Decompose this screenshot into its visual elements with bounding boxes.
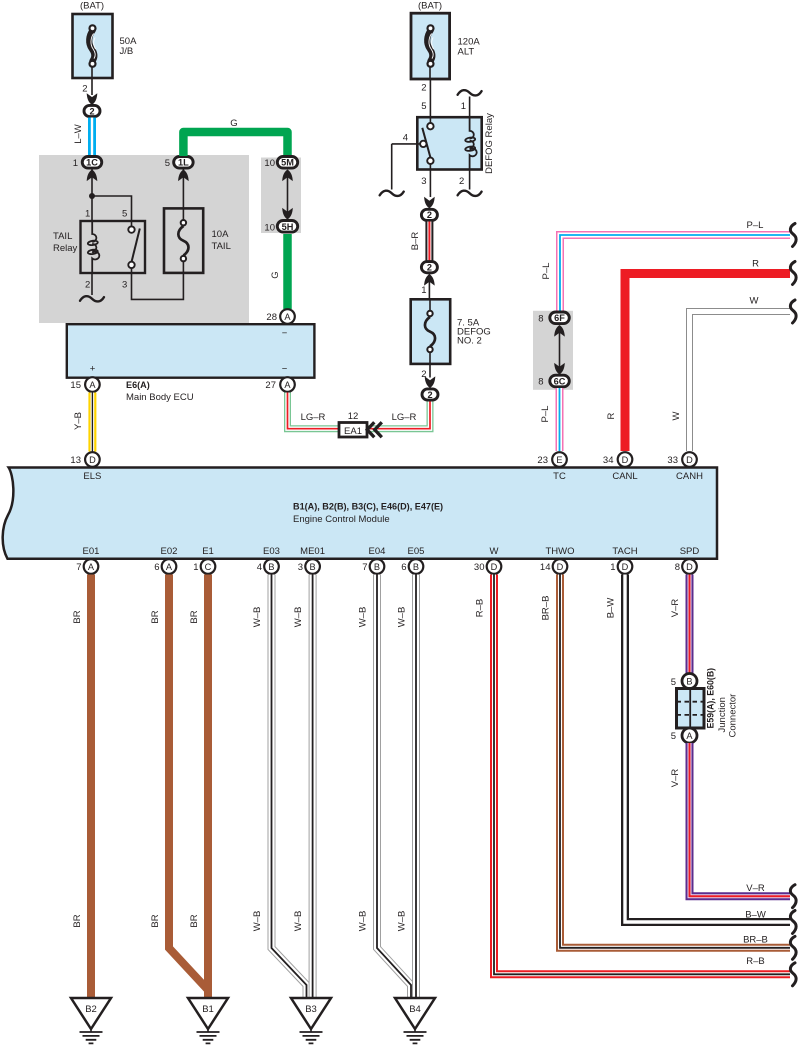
svg-text:5: 5 xyxy=(421,101,426,112)
svg-text:E01: E01 xyxy=(83,546,100,557)
svg-text:3: 3 xyxy=(298,562,303,573)
wire BR-B from THWO xyxy=(560,575,790,948)
pin circle A junction xyxy=(682,728,697,743)
svg-text:+: + xyxy=(90,364,96,375)
svg-text:A: A xyxy=(284,380,291,390)
svg-text:A: A xyxy=(88,562,95,572)
arrow into oval 2 bottom branch xyxy=(425,376,436,388)
svg-text:E04: E04 xyxy=(369,546,386,557)
svg-text:2: 2 xyxy=(427,390,432,400)
svg-text:R–B: R–B xyxy=(746,956,764,967)
svg-text:E05: E05 xyxy=(408,546,425,557)
fuse 120A ALT xyxy=(411,13,450,79)
svg-text:R–B: R–B xyxy=(475,599,486,617)
svg-text:TACH: TACH xyxy=(612,546,637,557)
svg-text:W–B: W–B xyxy=(252,607,263,628)
arrow into 6C from above xyxy=(554,363,565,375)
svg-text:−: − xyxy=(282,364,288,375)
pin circle E 23 xyxy=(552,452,567,467)
connector 6C oval xyxy=(550,375,570,387)
switch DEFOG relay xyxy=(420,117,434,169)
svg-text:5: 5 xyxy=(671,677,676,688)
continuation squiggle R xyxy=(790,262,796,285)
wire G green 5H to ECU pin 28 xyxy=(283,234,292,309)
svg-text:4: 4 xyxy=(403,133,408,144)
svg-text:BR: BR xyxy=(150,914,161,927)
wire G green 1L to 5M xyxy=(183,132,287,156)
svg-text:5H: 5H xyxy=(282,222,294,232)
connector 2 oval xyxy=(84,105,100,116)
svg-text:W: W xyxy=(671,411,682,420)
wire junction to switch pin5 xyxy=(92,196,132,221)
svg-text:G: G xyxy=(230,118,237,129)
svg-text:6C: 6C xyxy=(554,376,566,386)
svg-text:1: 1 xyxy=(193,562,198,573)
ground B2 xyxy=(71,998,111,1043)
svg-text:W–B: W–B xyxy=(252,911,263,932)
svg-text:1: 1 xyxy=(461,101,466,112)
svg-text:W: W xyxy=(490,546,499,557)
pin circle A 28 xyxy=(280,309,295,324)
svg-text:B–W: B–W xyxy=(745,910,766,921)
svg-text:5: 5 xyxy=(671,731,676,742)
fuse 50A J/B xyxy=(73,14,113,78)
svg-text:D: D xyxy=(491,562,498,572)
wire junction to coil pin1 xyxy=(91,196,93,221)
arrow into 1C from below xyxy=(87,170,98,182)
svg-text:ALT: ALT xyxy=(458,47,475,58)
wire squiggle to relay pin1 xyxy=(469,97,471,118)
continuation squiggle pin2 defog xyxy=(458,191,482,196)
svg-text:ELS: ELS xyxy=(83,471,101,482)
ground B1 xyxy=(188,998,228,1043)
coil TAIL relay xyxy=(88,221,100,273)
connector 5H oval xyxy=(277,221,297,233)
svg-text:P–L: P–L xyxy=(540,406,551,423)
svg-text:A: A xyxy=(166,562,173,572)
pin circle B junction xyxy=(682,674,697,689)
svg-text:B4: B4 xyxy=(409,1004,421,1015)
svg-text:1C: 1C xyxy=(86,158,98,168)
svg-text:Engine Control Module: Engine Control Module xyxy=(293,514,390,525)
svg-text:2: 2 xyxy=(427,263,432,273)
svg-text:2: 2 xyxy=(427,210,432,220)
svg-text:14: 14 xyxy=(540,562,551,573)
connector 6F oval xyxy=(550,312,570,324)
connector oval 2 lower xyxy=(421,262,437,273)
svg-text:DEFOG Relay: DEFOG Relay xyxy=(484,113,495,174)
svg-text:D: D xyxy=(686,455,693,465)
wire BR E01 to B2 xyxy=(87,575,95,999)
svg-text:7: 7 xyxy=(76,562,81,573)
wire V-R lower xyxy=(690,743,791,896)
continuation squiggle W xyxy=(790,300,796,323)
wire BR E02 diagonal to B1 xyxy=(169,575,208,991)
svg-text:R: R xyxy=(752,259,759,270)
svg-text:8: 8 xyxy=(538,314,543,325)
switch TAIL relay xyxy=(128,221,140,273)
svg-text:2: 2 xyxy=(82,84,87,95)
svg-text:B: B xyxy=(413,562,419,572)
svg-text:R: R xyxy=(606,412,617,419)
wire LG-R xyxy=(288,393,431,429)
svg-text:CANH: CANH xyxy=(676,471,703,482)
svg-text:D: D xyxy=(622,455,629,465)
svg-text:E02: E02 xyxy=(161,546,178,557)
pin circle A 27 xyxy=(280,377,295,392)
svg-text:G: G xyxy=(270,271,281,278)
svg-text:SPD: SPD xyxy=(680,546,700,557)
svg-text:B: B xyxy=(686,676,692,686)
wire R-B from W pin xyxy=(494,575,790,975)
wire pin2 down xyxy=(91,273,93,295)
svg-text:C: C xyxy=(205,562,212,572)
svg-text:D: D xyxy=(686,562,693,572)
svg-text:L–W: L–W xyxy=(73,124,84,144)
svg-text:D: D xyxy=(89,455,96,465)
svg-text:6: 6 xyxy=(401,562,406,573)
svg-text:Y–B: Y–B xyxy=(73,412,84,430)
chevrons EA1 xyxy=(367,422,382,437)
wire W white xyxy=(690,312,791,452)
svg-text:W–B: W–B xyxy=(358,607,369,628)
wire pin3 to fuse bottom xyxy=(132,273,184,299)
svg-text:W–B: W–B xyxy=(293,911,304,932)
svg-text:2: 2 xyxy=(421,83,426,94)
svg-text:B3: B3 xyxy=(305,1004,317,1015)
continuation squiggle R-B xyxy=(790,963,796,986)
svg-text:1: 1 xyxy=(610,562,615,573)
coil DEFOG relay xyxy=(465,117,477,169)
arrow into 5M from below xyxy=(282,170,293,182)
svg-text:V–R: V–R xyxy=(670,769,681,788)
svg-text:LG–R: LG–R xyxy=(392,412,417,423)
arrow into oval 2 top xyxy=(424,197,435,209)
wire 1C to junction xyxy=(91,170,93,197)
connector 1L oval xyxy=(174,157,194,169)
svg-text:NO. 2: NO. 2 xyxy=(457,336,482,347)
wire P-L xyxy=(560,235,790,311)
svg-text:(BAT): (BAT) xyxy=(80,1,104,12)
node junction dot xyxy=(89,193,95,199)
wire W-B E03 diagonal to B3 xyxy=(272,575,307,999)
svg-text:A: A xyxy=(89,380,96,390)
svg-text:W–B: W–B xyxy=(358,911,369,932)
svg-text:TC: TC xyxy=(553,471,566,482)
svg-text:ME01: ME01 xyxy=(300,546,325,557)
wire between 5M and 5H xyxy=(287,177,289,212)
svg-text:THWO: THWO xyxy=(545,546,574,557)
svg-text:TAIL: TAIL xyxy=(53,231,72,242)
wire fuse bottom to oval xyxy=(429,364,431,378)
svg-text:10: 10 xyxy=(264,223,275,234)
svg-text:E: E xyxy=(556,455,562,465)
svg-text:TAIL: TAIL xyxy=(212,241,231,252)
continuation squiggle BR-B xyxy=(790,936,796,959)
wire pin3 down to connector xyxy=(429,170,431,198)
svg-text:D: D xyxy=(622,562,629,572)
continuation squiggle B-W xyxy=(790,911,796,934)
svg-text:2: 2 xyxy=(89,106,94,116)
svg-text:B–R: B–R xyxy=(410,232,421,251)
svg-text:EA1: EA1 xyxy=(344,426,362,437)
wire L-W xyxy=(88,118,96,158)
wire fuse to connector 2 xyxy=(91,78,93,95)
arrow into 5H from above xyxy=(282,208,293,220)
pin 4 wire and label xyxy=(392,143,420,145)
fuse 7.5A DEFOG NO.2 xyxy=(411,299,451,364)
svg-text:W–B: W–B xyxy=(397,607,408,628)
svg-text:6F: 6F xyxy=(554,313,565,323)
svg-text:BR: BR xyxy=(189,610,200,623)
connector block background 6F/6C xyxy=(533,311,573,390)
wire R red xyxy=(625,274,790,452)
svg-text:B: B xyxy=(374,562,380,572)
svg-text:7: 7 xyxy=(362,562,367,573)
connector EA1 box xyxy=(339,423,367,438)
svg-text:B1: B1 xyxy=(202,1004,214,1015)
svg-text:1: 1 xyxy=(85,209,90,220)
svg-text:V–R: V–R xyxy=(670,599,681,618)
svg-text:4: 4 xyxy=(257,562,262,573)
wire W-B ME01 to B3 xyxy=(309,575,317,999)
svg-text:A: A xyxy=(284,312,291,322)
svg-text:CANL: CANL xyxy=(612,471,637,482)
svg-text:1: 1 xyxy=(421,285,426,296)
Main Body ECU box xyxy=(67,324,315,378)
wire pin4 down xyxy=(391,144,393,190)
svg-text:15: 15 xyxy=(70,380,81,391)
connector 5M oval xyxy=(277,157,297,169)
svg-text:2: 2 xyxy=(85,280,90,291)
svg-text:5: 5 xyxy=(165,158,170,169)
svg-text:Connector: Connector xyxy=(728,694,739,738)
arrow into oval 2 lower from below xyxy=(424,274,435,286)
continuation squiggle pin4 xyxy=(380,191,404,196)
ECM Engine Control Module box xyxy=(3,468,717,559)
svg-text:W–B: W–B xyxy=(397,911,408,932)
svg-text:5M: 5M xyxy=(281,158,294,168)
svg-text:Junction: Junction xyxy=(717,697,728,732)
svg-text:W: W xyxy=(750,296,759,307)
wire B-R xyxy=(425,222,433,261)
svg-text:J/B: J/B xyxy=(120,46,134,57)
connector 1C oval xyxy=(82,157,102,169)
svg-text:B: B xyxy=(268,562,274,572)
svg-text:Main Body ECU: Main Body ECU xyxy=(126,392,194,403)
svg-text:30: 30 xyxy=(474,562,485,573)
ground B4 xyxy=(395,998,435,1043)
svg-text:B1(A), B2(B), B3(C), E46(D), E: B1(A), B2(B), B3(C), E46(D), E47(E) xyxy=(293,502,443,512)
svg-text:33: 33 xyxy=(667,455,678,466)
svg-text:3: 3 xyxy=(421,176,426,187)
wire W-B E05 to B4 xyxy=(412,575,420,999)
svg-text:E59(A), E60(B): E59(A), E60(B) xyxy=(706,668,716,729)
pin circle D 34 xyxy=(618,452,633,467)
arrow into 6F from below xyxy=(554,325,565,337)
continuation squiggle P-L xyxy=(790,224,796,247)
fuse 10A TAIL xyxy=(164,208,203,273)
junction block background (TAIL relay block) xyxy=(39,155,249,323)
svg-text:BR: BR xyxy=(189,914,200,927)
svg-text:1: 1 xyxy=(73,158,78,169)
svg-text:E03: E03 xyxy=(263,546,280,557)
ground B3 xyxy=(291,998,331,1043)
svg-text:B: B xyxy=(310,562,316,572)
svg-text:A: A xyxy=(686,731,693,741)
pin circle A 15 xyxy=(85,377,100,392)
svg-text:3: 3 xyxy=(122,280,127,291)
wire ALT fuse to relay pin5 xyxy=(429,79,431,117)
svg-text:E1: E1 xyxy=(202,546,214,557)
connector oval 2 bottom xyxy=(422,389,438,400)
wire W-B E04 diagonal to B4 xyxy=(377,575,411,999)
svg-text:BR–B: BR–B xyxy=(743,935,768,946)
svg-text:13: 13 xyxy=(70,455,81,466)
svg-text:B–W: B–W xyxy=(606,598,617,619)
arrow into 1L from below xyxy=(178,170,189,182)
svg-text:28: 28 xyxy=(266,312,277,323)
svg-text:10A: 10A xyxy=(212,229,230,240)
svg-text:Relay: Relay xyxy=(53,243,78,254)
continuation squiggle pin2 xyxy=(80,296,104,301)
svg-text:23: 23 xyxy=(537,455,548,466)
relay TAIL box xyxy=(81,221,146,273)
wire BR E1 to B1 xyxy=(204,575,212,999)
wire Y-B xyxy=(88,393,96,452)
svg-text:(BAT): (BAT) xyxy=(418,1,442,12)
svg-text:BR: BR xyxy=(72,610,83,623)
svg-text:8: 8 xyxy=(538,377,543,388)
svg-text:P–L: P–L xyxy=(541,263,552,280)
svg-text:−: − xyxy=(282,328,288,339)
wire pin2 down xyxy=(469,170,471,190)
connector block background 5M/5H xyxy=(261,158,301,234)
svg-text:BR–B: BR–B xyxy=(541,596,552,621)
svg-text:1L: 1L xyxy=(178,158,189,168)
continuation squiggle V-R xyxy=(790,885,796,908)
svg-text:12: 12 xyxy=(348,411,359,422)
svg-text:E6(A): E6(A) xyxy=(126,380,150,390)
svg-text:5: 5 xyxy=(122,209,127,220)
svg-text:B2: B2 xyxy=(85,1004,97,1015)
relay DEFOG box xyxy=(417,117,481,169)
svg-text:BR: BR xyxy=(72,914,83,927)
junction connector box E59/E60 xyxy=(677,689,705,729)
svg-text:BR: BR xyxy=(150,610,161,623)
wire between 6F and 6C xyxy=(559,332,561,367)
svg-text:27: 27 xyxy=(265,380,276,391)
svg-text:10: 10 xyxy=(264,158,275,169)
wire V-R from SPD upper xyxy=(686,575,694,675)
pin circle D 33 xyxy=(682,452,697,467)
continuation squiggle coil top xyxy=(458,90,482,95)
svg-text:8: 8 xyxy=(675,562,680,573)
wire P-L lower xyxy=(556,388,564,451)
svg-text:6: 6 xyxy=(154,562,159,573)
gray box TAIL relay block xyxy=(39,155,573,390)
wire 1L to fuse top xyxy=(182,170,184,209)
wire B-W from TACH xyxy=(625,575,790,923)
pin circle D 13 xyxy=(85,452,100,467)
svg-text:D: D xyxy=(557,562,564,572)
arrow into connector 2 xyxy=(87,93,98,105)
svg-text:P–L: P–L xyxy=(747,220,764,231)
svg-text:LG–R: LG–R xyxy=(301,412,326,423)
svg-text:34: 34 xyxy=(603,455,614,466)
svg-text:2: 2 xyxy=(459,176,464,187)
svg-text:W–B: W–B xyxy=(293,607,304,628)
connector oval 2 upper xyxy=(421,209,437,220)
svg-text:V–R: V–R xyxy=(746,883,765,894)
wire to fuse DEFOG NO.2 top xyxy=(428,274,430,299)
